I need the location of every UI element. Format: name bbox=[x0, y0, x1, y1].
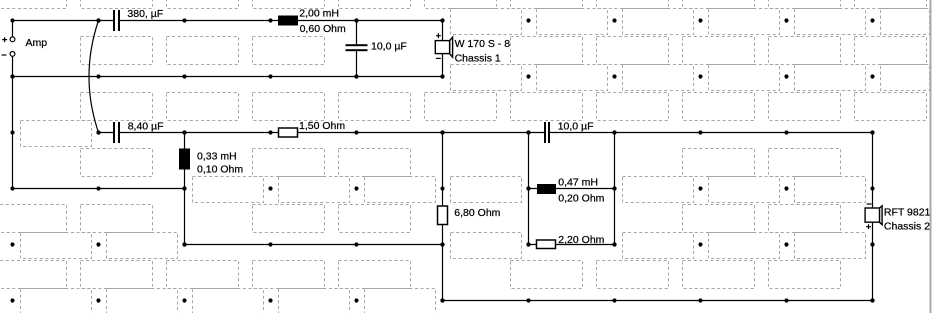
svg-text:8,40 µF: 8,40 µF bbox=[128, 121, 164, 133]
inductor L1 2.00mH body bbox=[278, 16, 298, 26]
speaker LS1 - polarity bbox=[436, 57, 441, 59]
speaker LS2 RFT9821 symbol bbox=[865, 206, 882, 225]
source Amp: - terminal bbox=[2, 52, 15, 57]
wire: top rail (Amp+ to tweeter node) bbox=[13, 20, 443, 22]
svg-text:Amp: Amp bbox=[26, 37, 48, 49]
wire: left vertical from Amp terminals bbox=[12, 21, 14, 189]
svg-text:2,20 Ohm: 2,20 Ohm bbox=[558, 234, 604, 246]
svg-text:RFT 9821: RFT 9821 bbox=[884, 207, 931, 219]
inductor L3 0.47mH body bbox=[537, 184, 556, 194]
wire: notch resistor branch y=244 bbox=[529, 244, 615, 246]
svg-text:W 170 S - 8: W 170 S - 8 bbox=[455, 38, 511, 50]
svg-text:0,47 mH: 0,47 mH bbox=[558, 177, 598, 189]
svg-text:6,80 Ohm: 6,80 Ohm bbox=[454, 207, 500, 219]
svg-text:2,00 mH: 2,00 mH bbox=[299, 8, 339, 20]
svg-text:0,60 Ohm: 0,60 Ohm bbox=[300, 23, 346, 35]
wire: bottom return rail bbox=[443, 300, 873, 302]
capacitor C2 10.0uF plates bbox=[346, 44, 368, 51]
svg-text:Chassis 1: Chassis 1 bbox=[455, 52, 501, 64]
speaker LS1 + polarity bbox=[436, 33, 441, 38]
wire: notch network right vertical bbox=[614, 133, 616, 245]
wire: speaker 1 branch bbox=[442, 21, 444, 77]
wire: lower return rail to Amp- bbox=[13, 188, 185, 190]
resistor R1 1.50 Ohm body bbox=[279, 128, 298, 137]
wire: notch network left vertical bbox=[528, 133, 530, 245]
speaker LS1 W170S symbol bbox=[435, 37, 452, 57]
wire: top section return rail bbox=[13, 76, 443, 78]
svg-text:1,50 Ohm: 1,50 Ohm bbox=[299, 120, 345, 132]
resistor R2 6.80 Ohm body bbox=[438, 206, 448, 225]
wire: return rail y=244 bbox=[185, 244, 443, 246]
wire: speaker 2 branch bbox=[872, 133, 874, 301]
capacitor C3 8.40uF plates bbox=[113, 122, 120, 143]
wire: curved hop from top rail to lower rail bbox=[89, 21, 99, 133]
speaker LS2 - polarity bbox=[867, 203, 872, 205]
svg-text:0,10 Ohm: 0,10 Ohm bbox=[197, 164, 243, 176]
svg-text:0,20 Ohm: 0,20 Ohm bbox=[558, 192, 604, 204]
wire: inductor L2 shunt branch at x=185 bbox=[184, 133, 186, 245]
svg-text:380, µF: 380, µF bbox=[127, 8, 163, 20]
wire: lower hot rail bbox=[99, 132, 873, 134]
capacitor C4 10.0uF plates bbox=[544, 122, 550, 143]
svg-text:10,0 µF: 10,0 µF bbox=[371, 40, 407, 52]
wire: resistor R2 shunt branch at x=443 bbox=[442, 133, 444, 301]
svg-text:Chassis 2: Chassis 2 bbox=[884, 221, 930, 233]
svg-text:0,33 mH: 0,33 mH bbox=[197, 151, 237, 163]
capacitor C1 380uF plates bbox=[113, 10, 120, 31]
speaker LS2 + polarity bbox=[866, 224, 871, 229]
inductor L2 0.33mH body bbox=[179, 149, 190, 170]
svg-text:10,0 µF: 10,0 µF bbox=[558, 120, 594, 132]
source Amp: + terminal bbox=[2, 37, 15, 42]
resistor R3 2.20 Ohm body bbox=[537, 240, 556, 249]
wire: notch inductor branch y=188 bbox=[529, 188, 615, 190]
wire: shunt capacitor branch at x=357 bbox=[356, 21, 358, 77]
